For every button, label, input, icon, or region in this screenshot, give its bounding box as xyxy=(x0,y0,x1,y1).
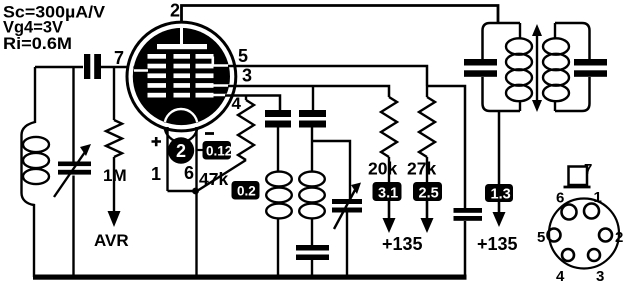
inductor L1 antenna coil loops xyxy=(23,137,49,152)
socket hole 6 xyxy=(562,205,577,220)
svg-text:3: 3 xyxy=(242,66,252,86)
socket hole 3 xyxy=(588,249,600,261)
tube envelope outer ring xyxy=(127,22,236,131)
wire tuning cap branch xyxy=(72,67,74,277)
capacitor C4 oscillator padding xyxy=(296,245,329,251)
wire left osc branch xyxy=(277,128,279,173)
wire diagonal 47k to cathode junction xyxy=(197,160,246,191)
coupling arrow (double headed) xyxy=(536,34,538,102)
wire right osc branch xyxy=(311,128,313,173)
socket base circle xyxy=(549,199,619,269)
wire top bus (anode pin2 to IF transformer primary) xyxy=(182,6,499,29)
wire input line to pin 7 xyxy=(35,66,83,68)
badge 3.1 xyxy=(373,182,402,201)
wire screen branch to 27k and bypass xyxy=(427,86,465,208)
resistor R1 1M grid leak xyxy=(113,67,115,120)
svg-text:27k: 27k xyxy=(407,159,436,179)
socket top cap square xyxy=(569,167,588,186)
tube internal lead to pin 3 (white) xyxy=(214,84,231,87)
inductor L2 oscillator left coil xyxy=(266,172,292,187)
tube inner disc xyxy=(133,28,230,125)
tube internal lead to pin 4 (white) xyxy=(214,94,228,97)
svg-text:7: 7 xyxy=(114,48,124,68)
capacitor C6 screen bypass xyxy=(454,208,483,213)
svg-text:+135: +135 xyxy=(382,234,423,254)
wire pin3 branch down to right osc cap xyxy=(312,86,314,110)
tube grid bars column 3 xyxy=(196,54,214,98)
badge 1.3 xyxy=(485,184,513,202)
svg-text:6: 6 xyxy=(184,163,194,183)
arrow to +135 xyxy=(388,201,391,218)
wire AVR arrow xyxy=(113,157,115,212)
svg-text:3: 3 xyxy=(596,268,604,284)
tube internal lead pin 7 (white) xyxy=(134,69,148,72)
tube cathode circle white arc on disc xyxy=(165,109,198,142)
svg-text:2: 2 xyxy=(170,1,180,21)
arrow to +135 xyxy=(426,201,429,218)
resistor R3 20k xyxy=(381,97,397,157)
svg-text:3.1: 3.1 xyxy=(378,186,398,202)
svg-text:5: 5 xyxy=(238,46,248,66)
socket hole 1 xyxy=(584,204,599,219)
IF transformer T1 secondary frame xyxy=(555,23,590,59)
wire pin 4 oscillator grid line xyxy=(225,96,280,111)
resistor R4 27k xyxy=(426,86,428,97)
svg-text:AVR: AVR xyxy=(94,231,129,250)
svg-text:0.2: 0.2 xyxy=(237,184,256,199)
svg-text:4: 4 xyxy=(232,94,242,113)
capacitor C3 oscillator right xyxy=(299,110,326,117)
capacitor badge 0.2 xyxy=(232,181,260,200)
inductor T1 secondary coil xyxy=(543,38,569,54)
inductor T1 primary coil xyxy=(506,38,532,54)
capacitor grid coupling (two vertical plates) xyxy=(84,54,90,79)
wire connecting leads xyxy=(168,190,197,192)
inductor L3 oscillator right coil xyxy=(299,172,325,187)
capacitor C2 oscillator left xyxy=(265,110,291,117)
tube U1 heptode: cathode circle (black part below envelope) xyxy=(165,109,198,142)
svg-text:7: 7 xyxy=(584,161,592,178)
wire left branch down to antenna coil xyxy=(22,67,36,277)
capacitor C8 secondary xyxy=(574,59,607,66)
wire pin 3 line to 20k xyxy=(228,86,389,97)
ground bus xyxy=(33,275,467,280)
socket hole 2 xyxy=(599,229,612,242)
svg-text:2.5: 2.5 xyxy=(419,186,439,202)
wire to oscillator tuning cap xyxy=(312,141,350,199)
svg-text:1: 1 xyxy=(151,164,161,184)
socket hole 4 xyxy=(562,249,574,261)
svg-text:2: 2 xyxy=(176,141,186,161)
battery filament 2V circle xyxy=(168,137,194,163)
variable capacitor C1 tuning xyxy=(58,162,91,167)
svg-text:1.3: 1.3 xyxy=(491,187,511,203)
socket hole 5 xyxy=(548,229,561,242)
svg-text:1: 1 xyxy=(594,189,602,206)
svg-text:47k: 47k xyxy=(199,169,228,189)
capacitor badge 0.12 xyxy=(203,141,232,160)
svg-text:20k: 20k xyxy=(368,159,397,179)
tube grid bars column 1 xyxy=(148,54,167,98)
badge 2.5 xyxy=(413,182,442,201)
tube envelope white gap xyxy=(130,25,232,127)
wire cathode lead pin 1 xyxy=(166,127,168,191)
svg-text:Ri=0.6M: Ri=0.6M xyxy=(3,34,72,53)
tube anode top bar (white) xyxy=(157,44,207,49)
resistor R2 47k oscillator grid leak xyxy=(245,96,247,101)
wire primary B+ feed xyxy=(498,111,501,184)
variable capacitor C5 oscillator tuning xyxy=(332,199,362,204)
node junction dot xyxy=(192,188,199,195)
wire pin 5 screen line xyxy=(228,66,427,86)
plus sign xyxy=(152,137,162,146)
wire stub to 0.12 badge xyxy=(197,149,204,151)
svg-text:+135: +135 xyxy=(477,234,518,254)
IF transformer T1 primary frame xyxy=(483,23,521,59)
arrow to +135 xyxy=(498,202,501,212)
svg-text:0.12: 0.12 xyxy=(206,144,232,159)
tube grid bars column 2 xyxy=(174,54,191,98)
wire cathode lead pin 6 down to ground bus xyxy=(195,127,197,276)
svg-text:5: 5 xyxy=(537,229,545,246)
svg-text:6: 6 xyxy=(556,190,564,207)
tube internal bracket to pin 5 (white) xyxy=(213,57,230,66)
svg-text:4: 4 xyxy=(556,268,565,284)
minus sign xyxy=(205,132,214,135)
tube anode connection stub (white) xyxy=(180,27,183,44)
svg-text:2: 2 xyxy=(615,229,623,246)
capacitor C7 primary xyxy=(464,59,497,66)
